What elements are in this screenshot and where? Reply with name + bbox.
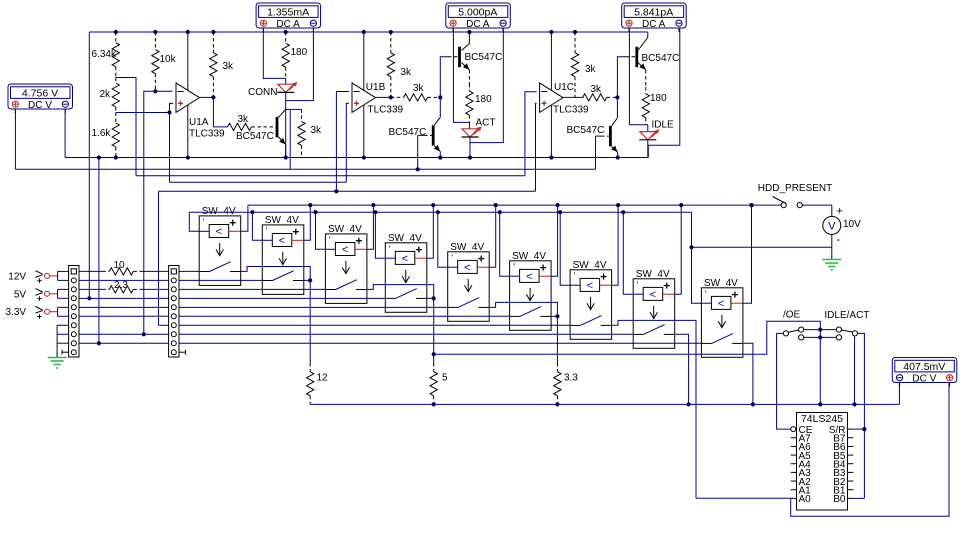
node U1B output bbox=[389, 95, 393, 99]
wire rail 354 to throws bbox=[434, 321, 821, 354]
wire J2 pin10 stub bbox=[179, 351, 186, 353]
wire Q3 base bbox=[418, 134, 424, 136]
wire SW7 ctrl bbox=[560, 212, 570, 285]
node bus1 x99 bbox=[97, 155, 101, 159]
wire tap1 6.34k/2k bbox=[116, 78, 136, 176]
wire Q5 emitter diag bbox=[612, 147, 618, 153]
node R3.3 bottom bus bbox=[555, 402, 559, 406]
arrow Q4 emitter bbox=[639, 63, 645, 69]
svg-text:BC547C: BC547C bbox=[236, 131, 274, 142]
wire M4 plus down bbox=[14, 109, 16, 170]
wire Q1 collector diag bbox=[278, 109, 286, 117]
wire HDD switch to source bbox=[802, 204, 832, 206]
wire Q1 emitter diag bbox=[278, 137, 286, 145]
wire row7 bbox=[159, 324, 169, 326]
wire U1A output bbox=[200, 96, 214, 98]
wire rail to SW4 bbox=[179, 297, 385, 299]
node SW8 ctrl busB bbox=[621, 210, 625, 214]
svg-text:U1C: U1C bbox=[554, 82, 574, 93]
node SW6 plus busA bbox=[556, 203, 560, 207]
svg-text:3k: 3k bbox=[413, 83, 425, 94]
svg-text:<: < bbox=[718, 298, 724, 310]
pin A0 bbox=[791, 497, 797, 499]
node SW4 plus busA bbox=[431, 203, 435, 207]
node SW9 output bottom bus bbox=[751, 402, 755, 406]
wire SW1 output to R12 bbox=[241, 267, 311, 364]
wire to CONN anode bbox=[285, 78, 287, 84]
wire Q4 emitter diag bbox=[638, 63, 646, 71]
wire to source top bbox=[831, 205, 833, 216]
wire rail to SW1 bbox=[179, 270, 199, 272]
switch SW4 SW_4V bbox=[385, 233, 427, 312]
svg-text:3k: 3k bbox=[591, 84, 603, 95]
wire base lead Q1 bbox=[264, 126, 276, 128]
node rail/3k U1A bbox=[211, 30, 215, 34]
pin B7 bbox=[848, 437, 854, 439]
node SW3 ctrl busB bbox=[313, 210, 317, 214]
wire row1 left bbox=[79, 270, 102, 272]
wire Q1 collector node bbox=[286, 108, 302, 110]
svg-text:3k: 3k bbox=[238, 114, 250, 125]
wire Q3 base lead bbox=[424, 134, 432, 136]
wire U1C plus input bbox=[536, 103, 537, 191]
resistor R_3k series U1B bbox=[391, 94, 441, 101]
wire U1C output bbox=[563, 96, 583, 98]
svg-text:1.6k: 1.6k bbox=[92, 128, 112, 139]
svg-text:<: < bbox=[587, 280, 593, 292]
pin B6 bbox=[848, 445, 854, 447]
wire M1 minus to cathode bbox=[286, 29, 314, 101]
voltmeter XMM4 4.756V bbox=[8, 84, 73, 113]
wire Q5 collector diag bbox=[612, 118, 618, 126]
svg-text:BC547C: BC547C bbox=[465, 52, 503, 63]
pin A7 bbox=[791, 437, 797, 439]
wire row9 bbox=[79, 342, 169, 344]
wire SW7 plus bbox=[612, 205, 619, 285]
switch IDLE/ACT bbox=[836, 327, 857, 340]
wire bus A plus bbox=[248, 204, 781, 206]
ammeter XMM2 5.000pA bbox=[446, 3, 511, 32]
wire 10k to U1A minus bbox=[155, 90, 172, 92]
node SW6 output join bbox=[555, 314, 559, 318]
wire row6 bbox=[79, 315, 169, 317]
pin A2 bbox=[791, 480, 797, 482]
switch SW7 SW_4V bbox=[570, 260, 612, 340]
resistor R_3.3 bbox=[554, 363, 561, 404]
wire Q2 base lead bbox=[448, 56, 458, 58]
wire 3.3V to connector pins bbox=[57, 307, 69, 316]
wire gnd pin stub bbox=[57, 324, 69, 326]
wire row2 bbox=[79, 279, 169, 281]
svg-text:3.3V: 3.3V bbox=[6, 307, 27, 318]
wire left rail to 5V row bbox=[88, 32, 90, 298]
node SW4 output join bbox=[432, 296, 436, 300]
resistor R_180 IDLE bbox=[642, 87, 649, 125]
wire M3 minus vertical bbox=[679, 29, 681, 146]
wire U1A plus node down bbox=[169, 113, 171, 183]
wire SW6 ctrl bbox=[500, 212, 510, 276]
wire SW4 ctrl bbox=[375, 212, 385, 258]
node SW7 plus busA bbox=[616, 203, 620, 207]
svg-text:CONN: CONN bbox=[248, 87, 277, 98]
op-amp U1B TLC339 bbox=[352, 83, 376, 113]
svg-text:3k: 3k bbox=[401, 67, 413, 78]
svg-text:180: 180 bbox=[475, 94, 492, 105]
node SW6 ctrl busB bbox=[498, 210, 502, 214]
LED ACT bbox=[462, 127, 482, 137]
node U1A GND on bus1 bbox=[186, 155, 190, 159]
transistor Q5 BC547C lower bbox=[609, 126, 612, 146]
wire ACT cathode to bus1 bbox=[469, 137, 471, 158]
svg-text:B0: B0 bbox=[833, 494, 846, 505]
wire plus-node line bbox=[170, 181, 347, 183]
node SW8 plus busA bbox=[679, 203, 683, 207]
wire SW7 line to A0 bbox=[696, 497, 791, 499]
tick J2 pin10 bbox=[185, 350, 187, 355]
resistor R_12 bbox=[307, 363, 314, 404]
node x99 on R9 bbox=[97, 341, 101, 345]
svg-text:SW_4V: SW_4V bbox=[704, 278, 738, 289]
node left rail to R4 bbox=[87, 296, 91, 300]
svg-text:IDLE: IDLE bbox=[652, 120, 675, 131]
svg-text:SW_4V: SW_4V bbox=[202, 206, 236, 217]
wire M2 plus to ACT anode bbox=[453, 29, 469, 123]
node U1C GND bus1 bbox=[549, 155, 553, 159]
wire U1B VCC pin bbox=[363, 32, 365, 90]
node SW5 plus busA bbox=[494, 203, 498, 207]
wire /OE pole to CE bbox=[777, 333, 791, 429]
svg-text:': ' bbox=[329, 235, 331, 245]
svg-text:12V: 12V bbox=[8, 271, 26, 282]
pin A1 bbox=[791, 489, 797, 491]
svg-text:5: 5 bbox=[442, 373, 448, 384]
svg-text:': ' bbox=[574, 271, 576, 281]
wire Q5 base lead bbox=[601, 135, 609, 137]
node U1B GND bus1 bbox=[362, 155, 366, 159]
svg-text:1.355mA: 1.355mA bbox=[267, 6, 309, 18]
wire row4 bbox=[79, 297, 169, 299]
wire top power rail bbox=[89, 31, 648, 33]
ground GND1 bbox=[48, 354, 67, 369]
wire SW1 plus bbox=[241, 205, 248, 231]
svg-text:': ' bbox=[637, 280, 639, 290]
svg-text:DC A: DC A bbox=[466, 19, 490, 30]
svg-text:BC547C: BC547C bbox=[389, 127, 427, 138]
ammeter XMM1 1.355mA bbox=[256, 3, 321, 32]
svg-text:3k: 3k bbox=[585, 64, 597, 75]
wire rail to SW6 bbox=[179, 315, 510, 317]
wire SW6 output bbox=[551, 315, 557, 317]
svg-text:<: < bbox=[342, 244, 348, 256]
wire M4 minus to bus1 bbox=[64, 109, 66, 158]
node pole bottom bus bbox=[852, 402, 856, 406]
node Q3 base bus2 bbox=[416, 167, 420, 171]
resistor R_180 ACT bbox=[466, 84, 473, 123]
node minus line to R8 bbox=[142, 332, 146, 336]
wire rail to SW2 bbox=[179, 279, 262, 281]
wire drive down to Q5 collector bbox=[616, 97, 618, 118]
wire 10V minus to bus B riser bbox=[692, 246, 832, 248]
svg-text:5.841pA: 5.841pA bbox=[634, 6, 673, 18]
svg-text:TLC339: TLC339 bbox=[553, 105, 589, 116]
node U1A output bbox=[211, 95, 215, 99]
IC U2 74LS245 bbox=[797, 413, 848, 511]
switch HDD_PRESENT bbox=[773, 197, 803, 208]
pin A4 bbox=[791, 463, 797, 465]
resistor R_1.6k bbox=[112, 113, 119, 158]
node SW4 ctrl busB bbox=[373, 210, 377, 214]
node throws bottom bus bbox=[818, 402, 822, 406]
node rail/6.34k bbox=[114, 30, 118, 34]
wire drive down to Q3 collector bbox=[439, 97, 441, 117]
node SW9 plus busA bbox=[749, 203, 753, 207]
transistor Q4 BC547C upper bbox=[635, 47, 638, 67]
svg-text:74LS245: 74LS245 bbox=[801, 413, 843, 425]
wire U1A VCC pin bbox=[187, 32, 189, 90]
op-amp U1A TLC339 bbox=[176, 83, 200, 113]
svg-text:12: 12 bbox=[317, 373, 329, 384]
wire Q5 emitter down bbox=[617, 152, 619, 157]
svg-text:': ' bbox=[513, 262, 515, 272]
input arrow 12V bbox=[35, 271, 49, 283]
pin S/R bbox=[848, 428, 854, 430]
wire A0 branch to M5 plus bbox=[791, 383, 949, 517]
wire red 3.3V bbox=[50, 311, 57, 313]
wire U1A out to series 3k bbox=[213, 97, 227, 127]
wire gnd pin stub bbox=[57, 333, 69, 335]
switch SW6 SW_4V bbox=[510, 251, 551, 331]
wire SW6 plus bbox=[551, 205, 558, 276]
switch SW8 SW_4V bbox=[633, 269, 675, 349]
arrow Q3 emitter bbox=[434, 145, 440, 151]
switch SW9 SW_4V bbox=[701, 278, 743, 358]
node Q5 emitter bus1 bbox=[616, 155, 620, 159]
wire Q2 emitter lead bbox=[468, 70, 470, 84]
switch SW3 SW_4V bbox=[325, 224, 367, 304]
resistor R_3k series U1C bbox=[583, 94, 618, 101]
wire SW8 plus bbox=[675, 205, 682, 294]
node SW2 ctrl busB bbox=[250, 210, 254, 214]
svg-text:3k: 3k bbox=[311, 125, 323, 136]
svg-text:407.5mV: 407.5mV bbox=[903, 361, 945, 373]
svg-text:DC A: DC A bbox=[276, 19, 300, 30]
svg-text:A0: A0 bbox=[799, 494, 812, 505]
svg-text:5.000pA: 5.000pA bbox=[458, 6, 497, 18]
node rail/3k U1C bbox=[573, 30, 577, 34]
arrow Q5 emitter bbox=[611, 146, 617, 152]
node U1B drive bbox=[438, 95, 442, 99]
node SW5 ctrl busB bbox=[436, 210, 440, 214]
node SW2 output join bbox=[308, 278, 312, 282]
wire to ACT anode bbox=[468, 122, 470, 128]
svg-text:TLC339: TLC339 bbox=[368, 105, 404, 116]
node CONN cathode bus1 bbox=[284, 155, 288, 159]
node U1C drive bbox=[615, 95, 619, 99]
svg-text:<: < bbox=[216, 226, 222, 238]
node U1A minus bbox=[153, 89, 157, 93]
switch /OE bbox=[783, 327, 804, 340]
svg-text:SW_4V: SW_4V bbox=[265, 215, 299, 226]
svg-text:4.756 V: 4.756 V bbox=[22, 87, 58, 99]
wire to Q4 base bbox=[617, 57, 625, 98]
resistor R_10 row1 bbox=[102, 268, 140, 275]
resistor R_5 bbox=[430, 363, 437, 404]
wire Q3 base down to bus2 bbox=[417, 135, 419, 169]
node R5 bottom bus bbox=[432, 402, 436, 406]
transistor Q2 BC547C upper bbox=[458, 47, 461, 67]
wire Q3 emitter diag bbox=[434, 146, 440, 152]
svg-text:SW_4V: SW_4V bbox=[636, 269, 670, 280]
wire bus1 to R9 bbox=[98, 158, 100, 344]
wire bottom bus bbox=[310, 403, 899, 405]
wire Q5 base down bus2 end bbox=[595, 136, 597, 169]
source V1 10V bbox=[823, 216, 841, 234]
svg-text:DC A: DC A bbox=[642, 19, 666, 30]
wire row8 bbox=[79, 333, 169, 335]
node busA SW9 plus bbox=[749, 203, 753, 207]
svg-text:IDLE/ACT: IDLE/ACT bbox=[824, 310, 869, 321]
wire pole to bottom bus bbox=[854, 336, 856, 404]
resistor R_10k bbox=[152, 32, 159, 91]
wire Q4 base lead bbox=[626, 56, 636, 58]
node bus1 divider bbox=[114, 155, 118, 159]
wire SW3 plus bbox=[367, 205, 374, 249]
svg-text:/OE: /OE bbox=[783, 310, 801, 321]
wire source bottom bbox=[831, 234, 833, 255]
svg-text:10V: 10V bbox=[843, 219, 861, 230]
wire to IDLE anode bbox=[647, 125, 649, 132]
wire SW4 plus bbox=[427, 205, 434, 258]
wire B0 stub bbox=[853, 497, 864, 499]
wire SW3 output to R5 bbox=[367, 285, 434, 355]
node SW8 output bottom bus bbox=[687, 402, 691, 406]
switch SW5 SW_4V bbox=[448, 242, 490, 321]
transistor Q3 BC547C lower bbox=[432, 125, 435, 145]
wire throw row lower bbox=[804, 336, 837, 338]
svg-text:SW_4V: SW_4V bbox=[388, 233, 422, 244]
wire rail to SW7 bbox=[179, 324, 570, 326]
svg-text:SW_4V: SW_4V bbox=[328, 224, 362, 235]
wire Q2 collector to rail bbox=[468, 32, 470, 44]
svg-text:V: V bbox=[828, 220, 836, 232]
wire reference line R7 bbox=[159, 190, 536, 192]
svg-text:BC547C: BC547C bbox=[642, 53, 680, 64]
wire gnd pin stub bbox=[57, 342, 69, 344]
wire Q1 emitter down bbox=[285, 145, 287, 158]
svg-text:': ' bbox=[705, 289, 707, 299]
wire row3 left bbox=[79, 288, 102, 290]
node Q3 emitter bus1 bbox=[438, 155, 442, 159]
node rail/180 bbox=[284, 30, 288, 34]
svg-text:U1A: U1A bbox=[189, 117, 209, 128]
resistor R_3k series U1A bbox=[228, 123, 264, 130]
wire tap1 line bbox=[136, 175, 525, 177]
pin A3 bbox=[791, 471, 797, 473]
wire Q3 emitter down bbox=[439, 152, 441, 158]
node ACT cathode bus1 bbox=[468, 155, 472, 159]
wire rail to SW8 bbox=[179, 333, 633, 335]
svg-text:3.3: 3.3 bbox=[564, 373, 578, 384]
switch SW2 SW_4V bbox=[262, 215, 304, 295]
tick J1 pin10 bbox=[61, 350, 63, 355]
wire U1C VCC pin bbox=[550, 32, 552, 90]
wire SW5 plus bbox=[489, 205, 496, 267]
wire gnd chain vertical bbox=[56, 325, 58, 353]
node rail/U1A VCC bbox=[186, 30, 190, 34]
wire SW2 output bbox=[304, 279, 310, 281]
input arrow 5V bbox=[35, 289, 49, 301]
wire SW1 ctrl bbox=[189, 212, 199, 231]
node U1B minus on 191 line bbox=[334, 189, 338, 193]
wire tap2 2k/1.6k to U1A plus bbox=[116, 112, 170, 114]
wire U1C GND pin bbox=[550, 105, 552, 157]
wire 5V to connector pins bbox=[57, 289, 69, 298]
node SW2 plus busA bbox=[308, 203, 312, 207]
wire Q2 emitter diag bbox=[462, 63, 470, 71]
svg-text:SW_4V: SW_4V bbox=[512, 251, 546, 262]
svg-text:': ' bbox=[266, 226, 268, 236]
svg-text:': ' bbox=[451, 253, 453, 263]
svg-text:SW_4V: SW_4V bbox=[573, 260, 607, 271]
svg-text:SW_4V: SW_4V bbox=[450, 242, 484, 253]
wire 12V to connector pins bbox=[57, 271, 69, 280]
pin B5 bbox=[848, 454, 854, 456]
arrow Q1 emitter bbox=[279, 138, 285, 144]
wire R5 node down bbox=[433, 354, 435, 363]
svg-text:+: + bbox=[837, 206, 843, 218]
pin A5 bbox=[791, 454, 797, 456]
wire U1C minus input bbox=[525, 92, 537, 176]
pin CE bubble bbox=[791, 427, 796, 432]
wire row5 bbox=[79, 306, 169, 308]
node throw lower bbox=[818, 335, 822, 339]
node 10V minus on SW9 ctrl bbox=[689, 245, 693, 249]
pin B4 bbox=[848, 463, 854, 465]
node SW7 ctrl busB bbox=[558, 210, 562, 214]
node SW3 plus busA bbox=[371, 203, 375, 207]
wire bus1 end up bbox=[647, 145, 649, 157]
wire SW7 output to A0 bbox=[612, 320, 696, 498]
svg-text:HDD_PRESENT: HDD_PRESENT bbox=[758, 183, 832, 194]
svg-text:TLC339: TLC339 bbox=[189, 129, 225, 140]
wire M3 plus to IDLE anode bbox=[629, 29, 647, 125]
node R5 rail bbox=[432, 352, 436, 356]
wire U1B output bbox=[376, 96, 391, 98]
wire U1B minus input bbox=[336, 92, 349, 192]
wire red 5V bbox=[50, 293, 57, 295]
svg-text:BC547C: BC547C bbox=[567, 125, 605, 136]
svg-text:<: < bbox=[464, 262, 470, 274]
svg-text:<: < bbox=[402, 253, 408, 265]
wire red 12V bbox=[50, 275, 57, 277]
node rail/Q2 collector bbox=[467, 30, 471, 34]
pin B1 bbox=[848, 489, 854, 491]
node rail/3k U1B bbox=[389, 30, 393, 34]
wire Q4 emitter lead bbox=[645, 70, 647, 87]
node U1A plus bbox=[167, 110, 171, 114]
wire collector node to bus2 bbox=[289, 109, 291, 169]
svg-text:DC V: DC V bbox=[912, 374, 936, 385]
wire SW8 ctrl bbox=[623, 212, 633, 294]
switch SW1 SW_4V bbox=[199, 206, 241, 286]
node rail/U1C VCC bbox=[549, 30, 553, 34]
wire bus B control bbox=[189, 211, 691, 213]
svg-text:<: < bbox=[279, 235, 285, 247]
wire IDLE cathode right bbox=[648, 140, 680, 146]
LED IDLE bbox=[639, 129, 659, 139]
wire throws to bottom bus bbox=[819, 330, 821, 405]
wire IDLE/ACT pole to S/R B0 bbox=[858, 333, 865, 498]
